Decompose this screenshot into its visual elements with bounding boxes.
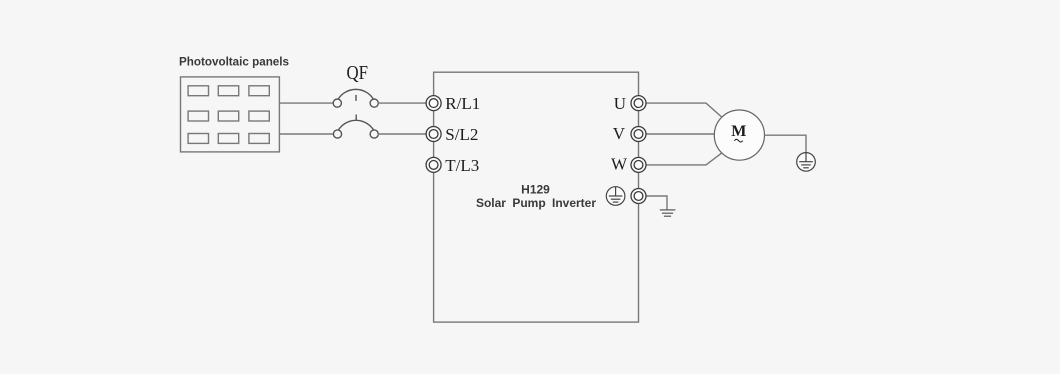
inverter U1 enclosure box — [434, 72, 639, 322]
svg-text:Photovoltaic panels: Photovoltaic panels — [179, 54, 289, 68]
svg-text:Solar Pump Inverter: Solar Pump Inverter — [476, 196, 596, 210]
svg-text:W: W — [611, 154, 628, 173]
wire PE terminal to ground — [639, 196, 668, 210]
photovoltaic panel array PV — [181, 77, 280, 152]
svg-text:M: M — [731, 123, 746, 140]
wire QF pole 1 to terminal R/L1 — [378, 102, 434, 104]
wire PV- to QF pole 2 — [279, 133, 333, 135]
motor M1 — [714, 110, 764, 160]
protective earth symbol (motor frame) — [797, 153, 816, 172]
breaker QF linkage dash 2 — [355, 115, 357, 121]
terminal T/L3 — [426, 157, 441, 172]
terminal W — [631, 157, 646, 172]
svg-text:R/L1: R/L1 — [445, 94, 480, 113]
svg-text:S/L2: S/L2 — [445, 125, 478, 144]
svg-text:H129: H129 — [521, 183, 550, 197]
wire motor to protective earth — [764, 135, 806, 152]
svg-text:QF: QF — [347, 62, 369, 84]
svg-text:T/L3: T/L3 — [445, 156, 479, 175]
terminal PE — [631, 189, 646, 204]
breaker QF pole 2 — [333, 120, 378, 138]
wire U-phase to motor — [639, 103, 722, 117]
breaker QF pole 1 — [333, 89, 378, 107]
wire V-phase to motor — [639, 133, 715, 135]
breaker QF linkage dash 1 — [355, 95, 357, 101]
wire W-phase to motor — [639, 153, 722, 165]
ground symbol (inverter PE) — [660, 210, 676, 216]
terminal U — [631, 96, 646, 111]
terminal V — [631, 127, 646, 142]
svg-text:U: U — [614, 94, 626, 113]
wire PV+ to QF pole 1 — [279, 102, 333, 104]
wire QF pole 2 to terminal S/L2 — [378, 133, 434, 135]
svg-text:V: V — [613, 124, 626, 143]
protective earth symbol (inside inverter) — [606, 187, 625, 206]
terminal S/L2 — [426, 127, 441, 142]
terminal R/L1 — [426, 96, 441, 111]
